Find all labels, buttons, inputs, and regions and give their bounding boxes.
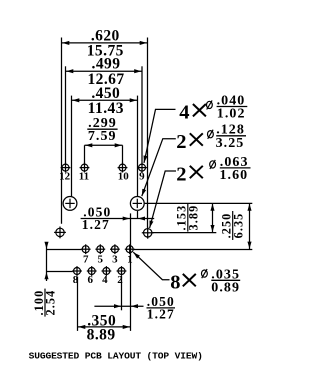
- dimension .100/2.54 dim line vertical: [46, 242, 48, 281]
- dimension .350 arrow left: [78, 326, 85, 328]
- svg-text:2: 2: [176, 131, 186, 153]
- dimension .450 arrow right: [130, 99, 137, 101]
- dimension .153 arrow up: [212, 204, 214, 211]
- dimension .153/3.89 dim line: [212, 203, 214, 232]
- svg-text:1: 1: [127, 253, 133, 265]
- leader for 2x dia .128 callout: [142, 139, 176, 196]
- pin2 column stub to lower .050 dim: [121, 276, 123, 310]
- svg-text:SUGGESTED PCB LAYOUT (TOP VIEW: SUGGESTED PCB LAYOUT (TOP VIEW): [29, 351, 203, 362]
- leader for 2x dia .063 callout: [150, 171, 176, 228]
- dimension .350 arrow right: [123, 326, 130, 328]
- mounting hole left (2x dia .128): [63, 197, 77, 211]
- dimension .620 arrow left: [62, 42, 69, 44]
- dimension .350/8.89 extension line left: [77, 277, 79, 331]
- dimension .050 lower arrow left-pointing: [131, 305, 137, 307]
- pin1 column extension line: [130, 213, 132, 331]
- dimension .499/12.67 extension line left: [65, 66, 67, 163]
- lower pad pin1: [125, 244, 135, 254]
- svg-text:3.89: 3.89: [187, 205, 201, 231]
- leader for 8x dia .035 callout: [133, 252, 169, 280]
- svg-text:7.59: 7.59: [88, 129, 117, 144]
- dimension .050 upper arrow right-pointing: [123, 218, 130, 220]
- pad pin9: [137, 163, 147, 173]
- lower pad pin5: [95, 244, 105, 254]
- rotated dimension text .250/6.35: [220, 211, 246, 240]
- svg-text:10: 10: [118, 171, 130, 183]
- dimension .299 arrow right: [115, 144, 122, 146]
- callout 8x fraction bar: [211, 279, 240, 281]
- dimension .620 arrow right: [140, 42, 147, 44]
- dimension .499 arrow right: [135, 70, 142, 72]
- svg-text:5: 5: [98, 253, 104, 265]
- dimension .250/6.35 dim line: [249, 203, 251, 249]
- leader for 4x dia .040 callout: [144, 109, 176, 162]
- rotated dimension text .100/2.54: [32, 289, 58, 317]
- dimension .153 arrow down: [212, 225, 214, 232]
- pad pin10: [118, 163, 128, 173]
- svg-text:3: 3: [112, 253, 118, 265]
- right extension line from dia.063 pad: [152, 232, 216, 234]
- lower pad pin3: [110, 244, 120, 254]
- dimension .450/11.43 extension line left: [71, 96, 73, 197]
- dimension .620/15.75 extension line left: [61, 38, 63, 224]
- svg-text:4: 4: [179, 102, 189, 124]
- dimension .499/12.67 dim line: [66, 70, 143, 72]
- callout 4x fraction bar: [217, 106, 248, 108]
- dimension .250 arrow up: [249, 204, 251, 211]
- hole dia .063 pad left: [54, 227, 66, 239]
- svg-text:12: 12: [59, 171, 71, 183]
- lower pad pin7: [81, 244, 91, 254]
- dimension .100/2.54 extension line lower: [47, 271, 73, 273]
- svg-text:2.54: 2.54: [44, 290, 58, 316]
- dimension .299 drop line right: [122, 145, 124, 163]
- dimension .250 arrow down: [249, 242, 251, 249]
- dimension .100 arrow down-pointing: [46, 243, 48, 249]
- svg-text:2: 2: [117, 274, 123, 286]
- callout 2x .063 fraction bar: [220, 167, 251, 169]
- svg-text:6: 6: [87, 274, 93, 286]
- svg-text:3.25: 3.25: [216, 136, 245, 151]
- dimension .499 arrow left: [66, 70, 73, 72]
- lower pad pin2: [117, 266, 127, 276]
- dimension .299/7.59 dim line: [85, 144, 123, 146]
- svg-text:9: 9: [139, 171, 145, 183]
- right extension line from pin row 1: [134, 249, 252, 251]
- dimension .620/15.75 dim line: [62, 42, 148, 44]
- svg-text:11.43: 11.43: [88, 100, 124, 117]
- mounting hole centerline stub: [137, 211, 139, 219]
- svg-text:1.60: 1.60: [220, 168, 249, 183]
- rotated dimension text .153/3.89: [175, 204, 201, 232]
- dimension .450/11.43 dim line: [72, 99, 138, 101]
- svg-text:6.35: 6.35: [231, 213, 245, 239]
- svg-text:11: 11: [79, 171, 89, 183]
- svg-text:1.02: 1.02: [217, 107, 246, 122]
- dimension .100 arrow up-pointing: [46, 272, 48, 278]
- dimension .050 lower fraction bar: [147, 307, 176, 309]
- svg-text:1.27: 1.27: [147, 306, 175, 321]
- svg-text:8: 8: [170, 272, 180, 294]
- dimension .299 drop line left: [84, 145, 86, 163]
- mounting hole right (2x dia .128): [130, 197, 144, 211]
- lower pad pin6: [87, 266, 97, 276]
- dimension .620/15.75 extension line right: [147, 38, 149, 228]
- dimension .050 upper arrow left-pointing: [138, 218, 145, 220]
- svg-text:1.27: 1.27: [82, 217, 110, 232]
- lower pad pin8: [72, 266, 82, 276]
- svg-text:4: 4: [102, 274, 108, 286]
- lower pad pin4: [102, 266, 112, 276]
- dimension .100/2.54 extension line upper: [47, 249, 82, 251]
- dimension .299 arrow left: [85, 144, 92, 146]
- dimension .450 arrow left: [72, 99, 79, 101]
- svg-text:2: 2: [176, 163, 186, 185]
- svg-text:0.89: 0.89: [211, 280, 240, 295]
- dimension .499/12.67 extension line right: [141, 66, 143, 163]
- svg-text:8.89: 8.89: [87, 326, 116, 343]
- svg-text:8: 8: [73, 274, 79, 286]
- hole dia .063 pad right: [142, 227, 154, 239]
- right extension line from mounting hole center: [145, 202, 253, 204]
- callout 2x .128 fraction bar: [216, 135, 246, 137]
- dimension .299 fraction bar: [87, 128, 117, 130]
- dimension .050 lower arrow right-pointing: [115, 305, 122, 307]
- pad pin11: [80, 163, 90, 173]
- svg-text:7: 7: [83, 253, 89, 265]
- pad pin12: [61, 163, 71, 173]
- dimension .050/1.27 upper dim line: [81, 218, 155, 220]
- dimension .050/1.27 lower dim line: [94, 305, 143, 307]
- dimension .350/8.89 dim line: [78, 326, 131, 328]
- dimension .450/11.43 extension line right: [137, 96, 139, 197]
